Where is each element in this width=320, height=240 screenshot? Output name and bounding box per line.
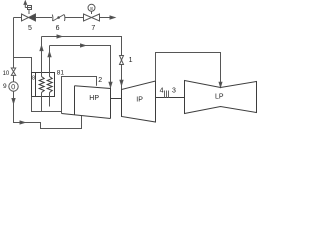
svg-text:LP: LP (215, 94, 224, 101)
svg-text:3: 3 (172, 88, 176, 95)
svg-text:10: 10 (3, 71, 10, 77)
svg-text:2: 2 (98, 77, 102, 84)
svg-text:7: 7 (91, 25, 95, 32)
svg-text:IP: IP (136, 96, 143, 103)
svg-text:1: 1 (129, 57, 133, 64)
svg-text:8: 8 (32, 76, 35, 82)
svg-text:8: 8 (90, 6, 93, 11)
svg-text:HP: HP (89, 95, 99, 102)
svg-text:81: 81 (57, 69, 65, 76)
svg-text:9: 9 (3, 83, 7, 90)
svg-text:6: 6 (56, 25, 60, 32)
svg-text:5: 5 (28, 25, 32, 32)
svg-text:4: 4 (160, 88, 164, 95)
